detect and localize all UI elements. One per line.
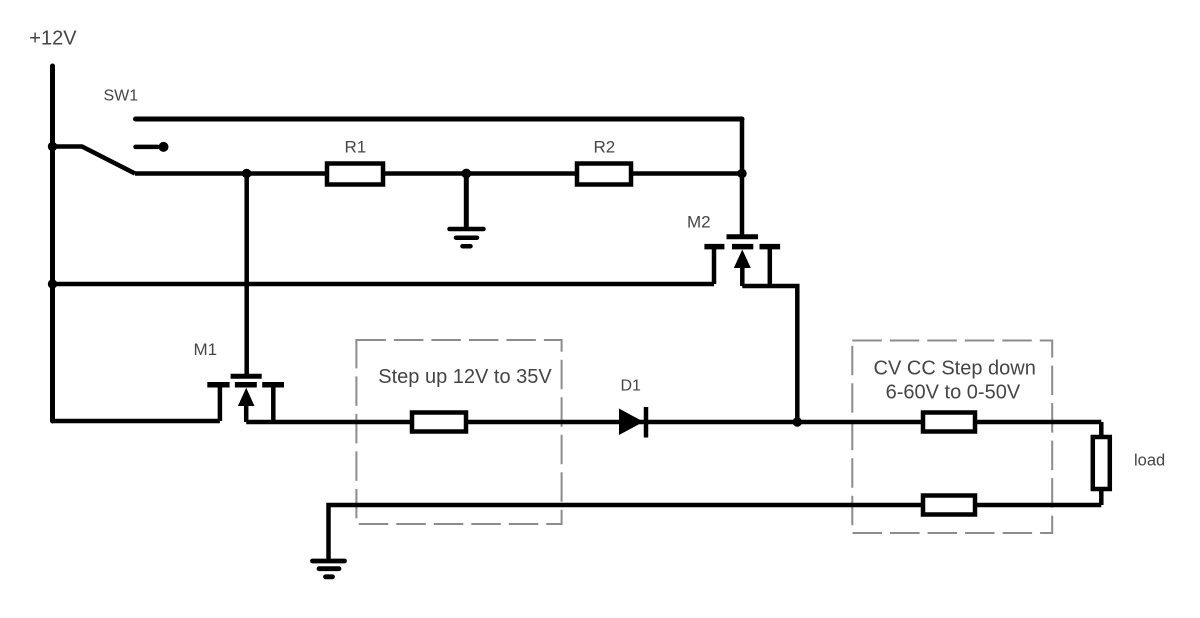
wire: bottom return line [329, 505, 1102, 559]
junction node at R2 right and M2 gate [737, 169, 746, 178]
wire: ground branch vertical [464, 174, 469, 230]
wire: M2 source down to output [742, 286, 797, 422]
diode D1 cathode bar [644, 407, 649, 438]
switch SW1 upper contact terminal dot [159, 142, 169, 152]
wire: mid horizontal through R1 R2 [135, 171, 742, 176]
wire: load right vertical [1099, 422, 1104, 505]
wire: main left vertical rail [50, 66, 55, 421]
wire: M2 gate vertical [740, 119, 745, 235]
wire: M2 drain horizontal to rail [53, 282, 715, 287]
svg-text:R2: R2 [594, 138, 616, 157]
ground symbol under divider [450, 229, 484, 246]
svg-text:+12V: +12V [29, 28, 77, 50]
junction node at M1 gate branch [242, 169, 251, 178]
svg-text:M1: M1 [194, 340, 218, 359]
wire: main output line M1 source to load [246, 420, 1101, 425]
svg-text:load: load [1134, 452, 1165, 470]
resistor inside step up block [412, 413, 466, 432]
svg-text:CV CC Step down: CV CC Step down [874, 358, 1036, 380]
svg-text:M2: M2 [687, 213, 711, 232]
switch SW1 blade (common pole to lower throw) [53, 147, 136, 174]
junction node at M2 source and output [793, 417, 802, 426]
junction node at ground branch [461, 169, 471, 179]
dashed block: CV CC step down [852, 341, 1052, 534]
transistor M2 [704, 237, 780, 286]
resistor load [1093, 437, 1110, 489]
svg-text:SW1: SW1 [104, 88, 139, 105]
svg-text:R1: R1 [345, 138, 367, 157]
resistor R1 [327, 164, 383, 185]
resistor in CV CC block lower [923, 496, 975, 515]
resistor R2 [577, 164, 631, 185]
resistor in CV CC block upper [923, 413, 975, 432]
junction node at rail and SW1 common [48, 142, 57, 151]
wire: M1 drain horizontal to rail bottom [53, 419, 220, 424]
junction node on rail at M2 drain wire [48, 279, 57, 288]
dashed block: step up converter [356, 340, 561, 524]
diode D1 [619, 409, 644, 436]
wire: M1 gate vertical [244, 174, 249, 375]
transistor M1 [207, 376, 284, 422]
svg-text:D1: D1 [621, 378, 642, 395]
svg-text:6-60V to 0-50V: 6-60V to 0-50V [886, 382, 1021, 404]
wire: SW1 upper throw wire to M2 gate [136, 117, 743, 122]
ground symbol bottom [313, 561, 345, 577]
svg-text:Step up 12V to 35V: Step up 12V to 35V [378, 366, 552, 388]
switch SW1 upper contact stub [136, 145, 158, 150]
